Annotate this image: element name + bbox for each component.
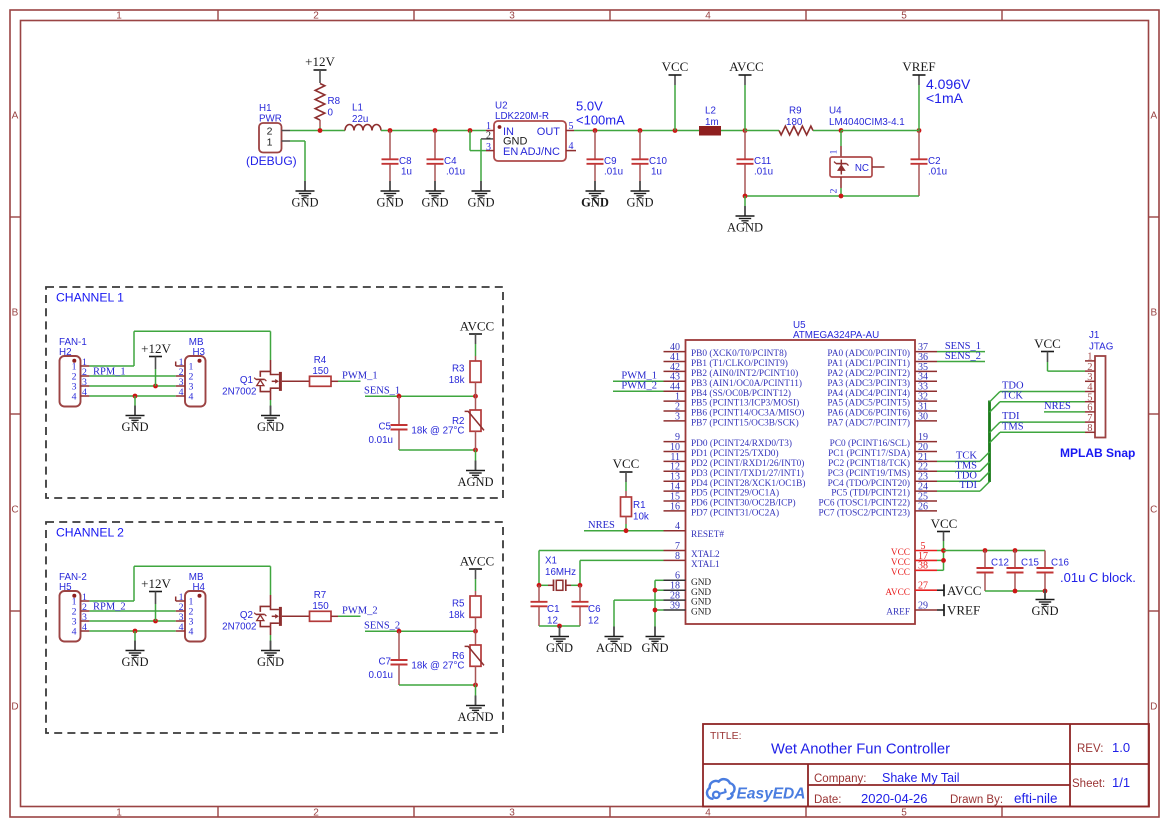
svg-text:GND: GND <box>467 196 494 210</box>
svg-text:R8: R8 <box>328 96 341 107</box>
wire fan pin1 to drain rail <box>89 566 270 601</box>
ground C9 <box>581 181 609 210</box>
label CHANNEL 1 <box>56 291 124 305</box>
svg-text:PB3 (AIN1/OC0A/PCINT11): PB3 (AIN1/OC0A/PCINT11) <box>691 378 802 389</box>
op-amp U2 LDK220M-R <box>486 101 576 162</box>
channel box CHANNEL 2 <box>46 522 503 733</box>
svg-text:Drawn By:: Drawn By: <box>950 794 1003 806</box>
svg-text:1: 1 <box>267 137 273 149</box>
svg-text:MPLAB Snap: MPLAB Snap <box>1060 446 1135 460</box>
svg-text:GND: GND <box>626 196 653 210</box>
svg-text:AVCC: AVCC <box>729 59 763 74</box>
wire net NRES <box>584 520 664 533</box>
ground AGND channel <box>457 450 493 489</box>
transistor Q2 2N7002 <box>222 595 309 635</box>
svg-text:.01u: .01u <box>604 167 623 178</box>
svg-text:EasyEDA: EasyEDA <box>737 786 806 803</box>
svg-text:PB5 (PCINT13/ICP3/MOSI): PB5 (PCINT13/ICP3/MOSI) <box>691 398 799 409</box>
svg-text:PD6 (PCINT30/OC2B/ICP): PD6 (PCINT30/OC2B/ICP) <box>691 498 796 509</box>
wire VCC to blocking caps <box>944 548 1046 553</box>
svg-text:PC2 (PCINT18/TCK): PC2 (PCINT18/TCK) <box>828 458 910 469</box>
svg-text:1/1: 1/1 <box>1112 775 1130 790</box>
svg-text:efti-nile: efti-nile <box>1014 791 1058 806</box>
resistor R8 <box>315 84 340 128</box>
svg-text:PA7 (ADC7/PCINT7): PA7 (ADC7/PCINT7) <box>827 418 910 429</box>
capacitor C15 <box>1007 551 1040 592</box>
svg-text:PC5 (TDI/PCINT21): PC5 (TDI/PCINT21) <box>831 488 910 499</box>
svg-text:PB1 (T1/CLKO/PCINT9): PB1 (T1/CLKO/PCINT9) <box>691 358 788 369</box>
svg-text:PA3 (ADC3/PCINT3): PA3 (ADC3/PCINT3) <box>827 378 910 389</box>
wire L2 to AVCC node <box>721 130 745 132</box>
svg-text:GND: GND <box>641 641 668 655</box>
svg-text:PB7 (PCINT15/OC3B/SCK): PB7 (PCINT15/OC3B/SCK) <box>691 418 799 429</box>
ground fan <box>121 406 148 435</box>
svg-text:PWM_2: PWM_2 <box>621 381 657 392</box>
svg-text:12: 12 <box>588 616 599 627</box>
svg-text:AVCC: AVCC <box>885 588 910 598</box>
resistor R9 <box>779 106 813 135</box>
svg-text:0: 0 <box>328 108 334 119</box>
svg-text:C: C <box>11 505 18 516</box>
svg-text:TDI: TDI <box>960 480 978 491</box>
svg-text:Sheet:: Sheet: <box>1072 778 1105 790</box>
svg-text:4: 4 <box>189 392 194 403</box>
svg-text:+12V: +12V <box>305 54 335 69</box>
wire fan pin1 to drain rail <box>89 331 270 366</box>
svg-text:12: 12 <box>547 616 558 627</box>
svg-text:H1: H1 <box>259 103 272 114</box>
ground blocking caps <box>1031 590 1058 619</box>
svg-text:AGND: AGND <box>457 475 493 489</box>
ground AGND C11 <box>727 196 763 235</box>
label MPLAB Snap <box>1060 446 1135 460</box>
svg-text:AVCC: AVCC <box>460 319 494 334</box>
ground C10 <box>626 181 653 210</box>
svg-text:GND: GND <box>376 196 403 210</box>
svg-text:R7: R7 <box>314 590 327 601</box>
svg-text:GND: GND <box>691 598 711 608</box>
svg-text:18k: 18k <box>449 610 465 621</box>
resistor R7 150 <box>310 590 339 621</box>
svg-text:AGND: AGND <box>727 221 763 235</box>
wire U4 to VREF <box>841 130 919 132</box>
wire net RPM_1 <box>89 367 175 378</box>
svg-text:GND: GND <box>546 641 573 655</box>
svg-text:Company:: Company: <box>814 773 866 785</box>
resistor R5 18k <box>449 591 481 631</box>
svg-text:PD1 (PCINT25/TXD0): PD1 (PCINT25/TXD0) <box>691 448 779 459</box>
EasyEDA logo <box>707 779 805 802</box>
svg-text:PC0 (PCINT16/SCL): PC0 (PCINT16/SCL) <box>830 438 910 449</box>
svg-text:PB4 (SS/OC0B/PCINT12): PB4 (SS/OC0B/PCINT12) <box>691 388 791 399</box>
svg-text:VREF: VREF <box>947 603 980 618</box>
capacitor C1 <box>531 585 560 626</box>
svg-text:C8: C8 <box>399 156 412 167</box>
power flag AVCC channel <box>460 319 494 357</box>
wire caps bottom <box>985 589 1047 594</box>
svg-text:PC7 (TOSC2/PCINT23): PC7 (TOSC2/PCINT23) <box>818 508 910 519</box>
svg-text:2N7002: 2N7002 <box>222 622 256 633</box>
svg-text:VCC: VCC <box>891 568 910 578</box>
connector H1 <box>246 103 297 168</box>
svg-text:A: A <box>12 111 19 122</box>
ground AGND channel <box>457 685 493 724</box>
label CHANNEL 2 <box>56 526 124 540</box>
svg-text:PWM_2: PWM_2 <box>342 606 378 617</box>
svg-text:AVCC: AVCC <box>460 554 494 569</box>
wire U2 OUT rail <box>574 130 699 132</box>
svg-text:1m: 1m <box>705 117 719 128</box>
svg-text:TITLE:: TITLE: <box>710 730 742 742</box>
svg-text:.01u: .01u <box>928 167 947 178</box>
svg-text:EN: EN <box>503 146 518 158</box>
svg-text:2: 2 <box>830 188 840 193</box>
svg-text:4: 4 <box>705 807 711 818</box>
label .01u C block <box>1060 570 1136 585</box>
wire net SENS_2 <box>937 351 985 362</box>
svg-text:PA5 (ADC5/PCINT5): PA5 (ADC5/PCINT5) <box>827 398 910 409</box>
svg-text:CHANNEL 1: CHANNEL 1 <box>56 291 124 305</box>
power flag VREF <box>902 59 935 131</box>
svg-text:LM4040CIM3-4.1: LM4040CIM3-4.1 <box>829 117 905 128</box>
connector J1 JTAG <box>1085 330 1113 438</box>
svg-text:ADJ/NC: ADJ/NC <box>520 146 560 158</box>
wire net TCK from U5 <box>937 451 990 462</box>
svg-text:VREF: VREF <box>902 59 935 74</box>
svg-text:4: 4 <box>705 10 711 21</box>
power flag VCC U5 <box>931 516 958 551</box>
svg-text:C16: C16 <box>1051 558 1070 569</box>
svg-text:26: 26 <box>918 501 928 512</box>
svg-text:PWM_1: PWM_1 <box>342 371 378 382</box>
wire net PWM_1 <box>338 371 378 382</box>
inductor L1 <box>345 103 381 131</box>
svg-text:XTAL1: XTAL1 <box>691 560 720 570</box>
svg-text:J1: J1 <box>1089 330 1099 341</box>
svg-text:PD5 (PCINT29/OC1A): PD5 (PCINT29/OC1A) <box>691 488 779 499</box>
svg-text:GND: GND <box>691 578 711 588</box>
wire net RPM_2 <box>89 602 175 613</box>
diode U4 LM4040CIM3-4.1 <box>829 106 905 197</box>
svg-text:Shake My Tail: Shake My Tail <box>882 771 960 785</box>
svg-text:D: D <box>1150 702 1157 713</box>
svg-text:VCC: VCC <box>613 456 640 471</box>
wire U5 GND pins <box>653 580 664 626</box>
svg-text:(DEBUG): (DEBUG) <box>246 154 297 168</box>
svg-text:Wet Another Fun Controller: Wet Another Fun Controller <box>771 742 950 758</box>
svg-text:.01u C block.: .01u C block. <box>1060 570 1136 585</box>
svg-text:PC6 (TOSC1/PCINT22): PC6 (TOSC1/PCINT22) <box>818 498 910 509</box>
svg-text:3: 3 <box>509 807 515 818</box>
capacitor C16 <box>1037 551 1070 592</box>
svg-text:3: 3 <box>486 142 491 153</box>
svg-text:3: 3 <box>675 411 680 422</box>
svg-text:5: 5 <box>901 10 907 21</box>
svg-text:GND: GND <box>121 420 148 434</box>
ground U5 <box>641 627 668 656</box>
wire XTAL1 <box>578 560 664 587</box>
svg-text:Q1: Q1 <box>240 375 253 386</box>
svg-text:B: B <box>12 308 19 319</box>
svg-text:R1: R1 <box>633 500 646 511</box>
svg-text:REV:: REV: <box>1077 743 1103 755</box>
svg-text:XTAL2: XTAL2 <box>691 550 720 560</box>
ground AGND U5 <box>596 627 632 656</box>
svg-text:PD0 (PCINT24/RXD0/T3): PD0 (PCINT24/RXD0/T3) <box>691 438 792 449</box>
wire net SENS_1 <box>937 341 985 352</box>
wire net SENS_2 <box>364 620 478 633</box>
svg-text:RESET#: RESET# <box>691 530 724 540</box>
wire gnd row <box>89 394 175 406</box>
wire R8 to rail <box>319 127 321 131</box>
ground U2 <box>467 181 494 210</box>
svg-text:X1: X1 <box>545 556 557 567</box>
svg-text:4: 4 <box>675 521 680 532</box>
ground crystal <box>546 626 573 655</box>
power flag +12V <box>305 54 335 83</box>
capacitor C7 <box>368 631 407 685</box>
svg-text:GND: GND <box>121 655 148 669</box>
wire net PWM_2 <box>338 606 378 617</box>
power flag AVCC channel <box>460 554 494 592</box>
wire source to GND <box>270 400 272 406</box>
svg-text:GND: GND <box>691 608 711 618</box>
svg-text:C11: C11 <box>754 156 771 167</box>
svg-text:NC: NC <box>855 163 869 174</box>
junction rail/R8 <box>318 128 323 133</box>
svg-text:AREF: AREF <box>886 608 910 618</box>
capacitor C10 <box>632 128 668 181</box>
capacitor C8 <box>382 128 413 181</box>
svg-text:C1: C1 <box>547 604 560 615</box>
svg-text:150: 150 <box>312 601 329 612</box>
svg-text:+12V: +12V <box>141 341 171 356</box>
resistor R2 thermistor <box>411 396 484 450</box>
connector H3 <box>176 337 206 407</box>
resistor R1 10k <box>613 456 649 531</box>
wire VCC pins bundle <box>937 548 946 570</box>
svg-text:29: 29 <box>918 600 928 611</box>
svg-text:1u: 1u <box>401 167 412 178</box>
svg-text:OUT: OUT <box>537 126 561 138</box>
svg-text:R3: R3 <box>452 364 465 375</box>
wire source to GND <box>270 635 272 641</box>
svg-text:5: 5 <box>901 807 907 818</box>
power flag VCC J1 <box>1034 336 1085 371</box>
wire +12V row <box>89 384 175 389</box>
svg-text:.01u: .01u <box>754 167 773 178</box>
capacitor C4 <box>427 128 466 181</box>
svg-text:.01u: .01u <box>446 167 465 178</box>
svg-text:C6: C6 <box>588 604 601 615</box>
svg-text:AVCC: AVCC <box>947 583 981 598</box>
port AVCC <box>937 583 981 598</box>
wire net TMS from U5 <box>937 460 990 471</box>
svg-text:2: 2 <box>486 131 491 142</box>
wire L1 to U2 <box>381 130 486 132</box>
svg-text:RPM_2: RPM_2 <box>93 602 126 613</box>
capacitor C6 <box>572 585 602 626</box>
wire H1 pin1 to GND <box>290 141 305 181</box>
svg-text:PC1 (PCINT17/SDA): PC1 (PCINT17/SDA) <box>828 448 910 459</box>
svg-text:4: 4 <box>569 141 574 152</box>
svg-text:22u: 22u <box>352 114 368 125</box>
svg-text:GND: GND <box>257 655 284 669</box>
svg-text:VCC: VCC <box>931 516 958 531</box>
ground C4 <box>421 181 448 210</box>
svg-text:0.01u: 0.01u <box>368 670 393 681</box>
svg-text:5.0V: 5.0V <box>576 99 603 114</box>
connector H5 <box>59 572 89 642</box>
svg-text:VCC: VCC <box>662 59 689 74</box>
svg-text:GND: GND <box>291 196 318 210</box>
svg-text:C7: C7 <box>378 657 391 668</box>
label 5.0V <box>576 99 625 128</box>
ground transistor <box>257 641 284 670</box>
capacitor C11 <box>737 131 774 197</box>
svg-text:VCC: VCC <box>891 558 910 568</box>
svg-text:18k @ 27°C: 18k @ 27°C <box>411 661 464 672</box>
wire H1 pin2 to rail <box>290 130 345 132</box>
svg-text:1.0: 1.0 <box>1112 740 1130 755</box>
svg-text:JTAG: JTAG <box>1089 342 1113 353</box>
resistor R3 18k <box>449 356 481 396</box>
ground C8 <box>376 181 403 210</box>
svg-text:18k @ 27°C: 18k @ 27°C <box>411 426 464 437</box>
svg-text:PB0 (XCK0/T0/PCINT8): PB0 (XCK0/T0/PCINT8) <box>691 348 787 359</box>
svg-text:<1mA: <1mA <box>926 90 964 106</box>
svg-text:L2: L2 <box>705 106 716 117</box>
svg-text:PD3 (PCINT/TXD1/27/INT1): PD3 (PCINT/TXD1/27/INT1) <box>691 468 804 479</box>
svg-text:16: 16 <box>670 501 680 512</box>
svg-text:2: 2 <box>313 10 319 21</box>
svg-text:C15: C15 <box>1021 558 1040 569</box>
wire AVCC to R9 <box>745 130 779 132</box>
svg-text:PD7 (PCINT31/OC2A): PD7 (PCINT31/OC2A) <box>691 508 779 519</box>
transistor Q1 2N7002 <box>222 360 309 400</box>
wire gnd row <box>89 629 175 641</box>
svg-text:PA4 (ADC4/PCINT4): PA4 (ADC4/PCINT4) <box>827 388 910 399</box>
wire net TDI from U5 <box>937 480 990 491</box>
svg-text:180: 180 <box>786 117 803 128</box>
svg-text:C9: C9 <box>604 156 617 167</box>
svg-text:1: 1 <box>830 149 840 154</box>
connector H2 <box>59 337 89 407</box>
svg-text:R5: R5 <box>452 599 465 610</box>
capacitor C5 <box>368 396 407 450</box>
power flag +12V channel <box>141 341 171 386</box>
svg-text:8: 8 <box>1087 423 1092 434</box>
wire analog ground bottom <box>743 194 919 199</box>
svg-text:C10: C10 <box>649 156 668 167</box>
svg-text:R9: R9 <box>789 106 802 117</box>
ground fan <box>121 641 148 670</box>
svg-text:AGND: AGND <box>596 641 632 655</box>
wire R9 to U4 <box>813 130 841 132</box>
svg-text:RPM_1: RPM_1 <box>93 367 126 378</box>
port VREF <box>937 603 980 618</box>
svg-text:27: 27 <box>918 581 928 592</box>
svg-text:Date:: Date: <box>814 794 842 806</box>
svg-text:VCC: VCC <box>1034 336 1061 351</box>
svg-text:SENS_2: SENS_2 <box>945 351 981 362</box>
svg-text:GND: GND <box>1031 604 1058 618</box>
wire channel agnd bottom <box>399 448 478 453</box>
svg-text:C5: C5 <box>378 422 391 433</box>
svg-text:R4: R4 <box>314 355 327 366</box>
wire U2 GND leg <box>481 139 494 181</box>
connector H4 <box>176 572 206 642</box>
svg-text:PC3 (PCINT19/TMS): PC3 (PCINT19/TMS) <box>828 468 910 479</box>
svg-text:C12: C12 <box>991 558 1009 569</box>
svg-text:NRES: NRES <box>1044 401 1071 412</box>
resistor R4 150 <box>310 355 339 386</box>
svg-text:SENS_2: SENS_2 <box>364 620 400 631</box>
title block <box>703 724 1149 807</box>
ground transistor <box>257 406 284 435</box>
svg-text:C2: C2 <box>928 156 941 167</box>
svg-text:5: 5 <box>569 121 574 132</box>
wire net TDO from U5 <box>937 470 990 481</box>
capacitor C2 <box>911 128 948 196</box>
svg-text:L1: L1 <box>352 103 363 114</box>
svg-text:PC4 (TDO/PCINT20): PC4 (TDO/PCINT20) <box>828 478 910 489</box>
wire channel agnd bottom <box>399 683 478 688</box>
svg-text:2N7002: 2N7002 <box>222 387 256 398</box>
wire net TDI to J1 <box>990 411 1086 433</box>
wire net PWM_2 <box>613 381 664 392</box>
svg-text:1u: 1u <box>651 167 662 178</box>
svg-text:PA2 (ADC2/PCINT2): PA2 (ADC2/PCINT2) <box>827 368 910 379</box>
svg-text:B: B <box>1150 308 1157 319</box>
svg-text:PB2 (AIN0/INT2/PCINT10): PB2 (AIN0/INT2/PCINT10) <box>691 368 798 379</box>
svg-text:PD4 (PCINT28/XCK1/OC1B): PD4 (PCINT28/XCK1/OC1B) <box>691 478 805 489</box>
wire net PWM_1 <box>613 371 664 382</box>
wire net TMS to J1 <box>990 421 1086 443</box>
svg-text:VCC: VCC <box>891 548 910 558</box>
op-amp U5 ATMEGA324PA-AU <box>664 320 938 624</box>
svg-text:AGND: AGND <box>457 710 493 724</box>
svg-text:4: 4 <box>72 392 77 403</box>
svg-text:PD2 (PCINT/RXD1/26/INT0): PD2 (PCINT/RXD1/26/INT0) <box>691 458 804 469</box>
svg-text:38: 38 <box>918 561 928 572</box>
svg-text:1: 1 <box>116 10 122 21</box>
svg-text:30: 30 <box>918 411 928 422</box>
svg-text:+12V: +12V <box>141 576 171 591</box>
wire +12V row <box>89 619 175 624</box>
svg-text:18k: 18k <box>449 375 465 386</box>
crystal X1 16MHz <box>539 556 580 592</box>
capacitor C12 <box>977 551 1009 592</box>
svg-text:C: C <box>1150 505 1157 516</box>
svg-text:39: 39 <box>670 600 680 611</box>
wire net TDO to J1 <box>990 381 1086 403</box>
channel box CHANNEL 1 <box>46 287 503 498</box>
svg-text:PA6 (ADC6/PCINT6): PA6 (ADC6/PCINT6) <box>827 408 910 419</box>
svg-text:4: 4 <box>72 627 77 638</box>
wire net NRES to J1 <box>1044 401 1085 412</box>
svg-text:Q2: Q2 <box>240 610 253 621</box>
wire EN branch <box>468 128 486 151</box>
svg-text:<100mA: <100mA <box>576 113 625 128</box>
svg-text:PA1 (ADC1/PCINT1): PA1 (ADC1/PCINT1) <box>827 358 910 369</box>
capacitor C9 <box>587 128 624 181</box>
power flag VCC <box>662 59 689 133</box>
svg-text:SENS_1: SENS_1 <box>364 385 400 396</box>
svg-text:4: 4 <box>189 627 194 638</box>
svg-text:A: A <box>1150 111 1157 122</box>
svg-text:0.01u: 0.01u <box>368 435 393 446</box>
